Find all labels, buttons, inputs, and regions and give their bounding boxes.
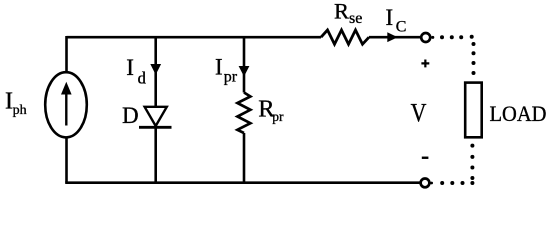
- wire top horizontal: [67, 36, 322, 39]
- arrow Ic: [387, 32, 397, 42]
- diode D: [145, 107, 167, 126]
- current source Iph: [45, 72, 87, 137]
- svg-text:pr: pr: [272, 109, 284, 124]
- svg-text:V: V: [411, 98, 427, 127]
- svg-text:d: d: [138, 69, 147, 88]
- svg-text:ph: ph: [13, 103, 27, 118]
- wire diode branch lower: [154, 127, 157, 182]
- svg-text:D: D: [122, 103, 139, 128]
- svg-text:se: se: [349, 10, 362, 27]
- wire Rpr branch lower: [243, 133, 246, 183]
- svg-text:LOAD: LOAD: [490, 101, 547, 126]
- wire Rse to terminal: [369, 36, 420, 39]
- dotted wire right lower vertical: [470, 144, 474, 180]
- terminal plus top: [421, 33, 430, 42]
- svg-text:I: I: [215, 54, 223, 79]
- terminal minus bottom: [421, 179, 430, 188]
- dotted wire top horizontal: [431, 35, 473, 40]
- arrow Id: [150, 64, 161, 75]
- svg-text:C: C: [396, 18, 407, 35]
- wire left vertical upper: [65, 36, 68, 72]
- svg-text:pr: pr: [224, 68, 238, 85]
- svg-text:I: I: [126, 55, 134, 80]
- resistor Rpr: [237, 93, 250, 134]
- wire left vertical lower: [65, 138, 68, 183]
- svg-text:R: R: [334, 0, 349, 23]
- wire diode branch upper: [154, 37, 157, 107]
- dotted wire bottom horizontal: [430, 181, 474, 185]
- wire bottom horizontal: [65, 181, 420, 184]
- resistor Rse: [321, 30, 369, 44]
- svg-text:I: I: [386, 5, 394, 30]
- dotted wire right upper vertical: [472, 42, 476, 75]
- wire Rpr branch upper: [243, 37, 246, 92]
- label plus: [421, 60, 429, 68]
- arrow Ipr: [239, 66, 250, 77]
- label minus: [422, 157, 429, 159]
- load resistor: [465, 83, 482, 138]
